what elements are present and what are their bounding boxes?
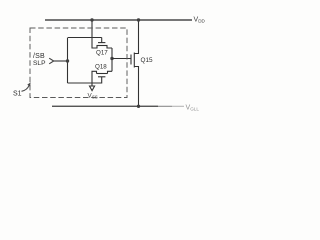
node junction on VGLL rail [137, 105, 140, 108]
ground label Vss [88, 93, 98, 100]
svg-text:SLP: SLP [33, 60, 46, 67]
wire input lead from arrow [54, 60, 68, 62]
transistor Q18 [95, 64, 108, 77]
node input junction [66, 59, 69, 62]
wire input node vertical [67, 38, 69, 84]
wire input gate line (bottom) [68, 77, 102, 83]
svg-text:Q17: Q17 [96, 50, 108, 57]
wire VDD rail [45, 19, 192, 21]
node junction on VDD rail above Q17 [90, 18, 93, 21]
block S1 dashed box [30, 28, 127, 98]
wire output node vertical [111, 48, 113, 71]
wire VDD rail to Q17 source [92, 20, 97, 48]
transistor Q17 [96, 38, 108, 57]
wire Q15 source to VGLL rail [134, 67, 138, 107]
wire Q15 drain to VDD rail [134, 20, 138, 54]
wire Q18 source to Vss [92, 71, 97, 86]
input signal arrowhead [49, 58, 54, 64]
svg-text:Q18: Q18 [95, 64, 107, 71]
node output junction [110, 57, 113, 60]
svg-text:DD: DD [198, 19, 205, 24]
transistor Q15 [131, 53, 153, 68]
svg-text:S1: S1 [13, 91, 22, 98]
ground Vss arrow [90, 86, 95, 91]
svg-text:Q15: Q15 [141, 57, 154, 64]
svg-text:SS: SS [92, 94, 98, 99]
net label VGLL [186, 105, 200, 112]
wire Q18 drain to output node [108, 71, 113, 73]
node junction on VDD rail above Q15 [137, 18, 140, 21]
svg-text:GLL: GLL [190, 107, 199, 112]
wire input gate line (top) [68, 37, 102, 39]
S1 leader arrow [22, 85, 30, 91]
wire Q17 drain to output node [107, 46, 112, 49]
wire VGLL rail [52, 105, 158, 107]
svg-text:/SB: /SB [33, 53, 45, 60]
wire output to Q15 gate [112, 58, 131, 60]
net label VDD [194, 17, 206, 24]
